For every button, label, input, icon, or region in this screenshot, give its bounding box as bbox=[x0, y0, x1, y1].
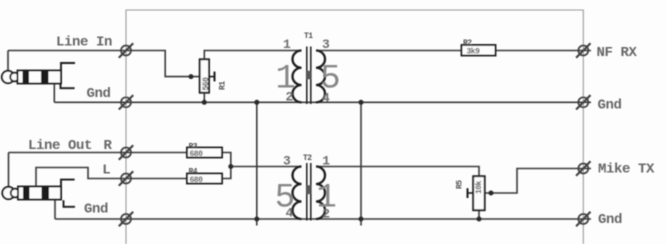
J1 tip bbox=[2, 71, 14, 83]
svg-text:Gnd: Gnd bbox=[87, 86, 111, 102]
wire: top jack sleeve drop to ground bbox=[53, 84, 55, 103]
svg-text:3: 3 bbox=[322, 37, 330, 52]
T1 primary winding (1) bbox=[292, 51, 301, 103]
svg-text:5: 5 bbox=[320, 61, 340, 99]
connector Gnd top-left bbox=[119, 95, 133, 109]
R5 body bbox=[473, 176, 485, 210]
svg-text:680: 680 bbox=[190, 150, 204, 159]
svg-text:Gnd: Gnd bbox=[84, 202, 108, 218]
wire: bottom jack sleeve drop to ground bbox=[54, 200, 56, 220]
junction dot ground link 2 bottom bbox=[359, 217, 364, 222]
resistor R3 680 bbox=[187, 142, 222, 159]
svg-text:5: 5 bbox=[275, 180, 295, 218]
transformer T2 bbox=[275, 154, 337, 222]
svg-text:T1: T1 bbox=[304, 32, 313, 41]
svg-text:Gnd: Gnd bbox=[598, 97, 622, 113]
connector Gnd bottom-left bbox=[119, 212, 133, 226]
svg-text:L: L bbox=[102, 163, 110, 179]
svg-text:Mike TX: Mike TX bbox=[598, 162, 655, 178]
junction dot R5 bottom bbox=[477, 217, 482, 222]
wire: ground link vertical 1 bbox=[256, 102, 258, 225]
transformer T1 bbox=[276, 32, 341, 106]
R5 wiper tap bbox=[468, 192, 474, 194]
wire: R4 output to junction bbox=[222, 167, 231, 179]
wire: R5 bottom stub to ground bus bbox=[478, 210, 480, 219]
svg-text:1: 1 bbox=[283, 37, 291, 52]
T1 secondary winding (5) bbox=[316, 51, 325, 103]
svg-text:Line In: Line In bbox=[56, 35, 112, 51]
junction dot R5 wiper bbox=[489, 191, 494, 196]
resistor R4 680 bbox=[187, 167, 222, 185]
trimmer R1 bbox=[200, 59, 228, 92]
border frame bbox=[126, 10, 583, 244]
wire: Line Out R from jack tip to R3 bbox=[9, 152, 188, 154]
T2 core marking bbox=[307, 185, 311, 194]
wire: Line Out L from jack ring to R4 bbox=[36, 168, 187, 187]
svg-text:R4: R4 bbox=[189, 167, 198, 176]
svg-text:3: 3 bbox=[283, 154, 291, 169]
connector Line Out R bbox=[119, 145, 133, 159]
T2 core bbox=[306, 163, 308, 221]
jack plug J1 (Line In, stereo) bbox=[2, 63, 75, 88]
wire: top jack tip drop bbox=[7, 51, 9, 72]
connector Gnd bottom-right bbox=[576, 212, 590, 226]
svg-text:R1: R1 bbox=[219, 81, 228, 90]
svg-text:680: 680 bbox=[190, 176, 204, 185]
svg-text:NF RX: NF RX bbox=[597, 45, 638, 61]
jack plug J2 (Line Out, stereo) bbox=[2, 180, 75, 207]
svg-text:R: R bbox=[104, 138, 113, 154]
svg-text:Line Out: Line Out bbox=[28, 138, 92, 154]
connector NF RX bbox=[576, 43, 590, 57]
junction dot R3/R4 node bbox=[228, 164, 233, 169]
junction dot ground link 1 top bbox=[254, 100, 259, 105]
wire: T2 pin 1 to R5 top bbox=[316, 167, 479, 177]
resistor R2 3k9 bbox=[462, 39, 496, 57]
junction dot R1 wiper bbox=[189, 74, 194, 79]
svg-text:10k: 10k bbox=[475, 180, 484, 194]
svg-text:1: 1 bbox=[316, 180, 336, 218]
svg-text:1: 1 bbox=[276, 61, 296, 99]
wire: R5 wiper to Mike TX terminal bbox=[485, 169, 591, 194]
wire: bottom jack tip drop bbox=[8, 153, 10, 188]
J2 body bracket bbox=[61, 180, 75, 201]
svg-text:3k9: 3k9 bbox=[467, 48, 481, 57]
svg-text:T2: T2 bbox=[303, 154, 312, 163]
junction dot R1 bottom on ground bus bbox=[202, 100, 207, 105]
J2 tip bbox=[2, 187, 14, 199]
connector Gnd top-right bbox=[576, 95, 590, 109]
T2 primary winding (5) bbox=[293, 167, 302, 220]
svg-text:Gnd: Gnd bbox=[598, 212, 622, 228]
wire: T1 pin 3 to R2 bbox=[316, 50, 462, 52]
T1 core bbox=[306, 47, 308, 105]
svg-text:560: 560 bbox=[202, 77, 211, 91]
R1 body bbox=[200, 59, 209, 92]
wire: ground link vertical 2 bbox=[360, 102, 362, 225]
svg-text:1: 1 bbox=[322, 154, 330, 169]
J2 shaft bbox=[18, 187, 61, 200]
J1 body bracket bbox=[61, 63, 75, 84]
junction dot ground link 1 bottom bbox=[254, 217, 259, 222]
T1 core marking bbox=[307, 71, 311, 80]
J1 insulating rings bbox=[23, 71, 30, 84]
wire: bottom ground bus bbox=[55, 218, 591, 220]
T2 secondary winding (1) bbox=[316, 167, 325, 220]
wire: R2 to NF RX terminal bbox=[496, 50, 591, 52]
connector Line Out L bbox=[119, 171, 133, 185]
svg-text:R5: R5 bbox=[456, 180, 465, 189]
connector Mike TX bbox=[576, 161, 590, 175]
wire: R1 bottom stub bbox=[203, 93, 205, 103]
wire: R3 output to junction bbox=[222, 153, 231, 167]
junction dot ground link 2 top bbox=[359, 100, 364, 105]
wire: junction to T2 pin 3 bbox=[231, 166, 302, 168]
R1 wiper tap bbox=[209, 76, 215, 78]
J1 shaft bbox=[18, 71, 62, 84]
trimmer R5 bbox=[456, 176, 485, 210]
connector Line In bbox=[119, 43, 133, 57]
wire: top ground bus bbox=[54, 101, 591, 103]
J2 insulating rings bbox=[23, 187, 30, 200]
wire: Line In from jack tip to bend and down to R1 wiper bbox=[8, 51, 200, 77]
wire: R1 top to T1 pin 1 bbox=[204, 51, 301, 60]
